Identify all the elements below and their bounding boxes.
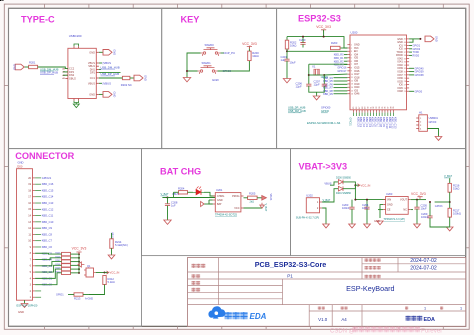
wire branch to R204 (168, 192, 174, 197)
svg-text:R205: R205 (249, 191, 256, 195)
svg-text:U200: U200 (351, 31, 358, 35)
svg-text:10kΩ: 10kΩ (290, 43, 296, 47)
svg-text:X1: X1 (312, 65, 316, 69)
svg-text:GPIO21: GPIO21 (349, 118, 351, 127)
wire U200 left pin KBD_R3 (344, 64, 347, 66)
svg-text:CONNECTOR: CONNECTOR (15, 151, 74, 161)
wire R213 left (68, 294, 74, 296)
net label VBUS (lower) (103, 82, 112, 86)
net port V_BAT (BAT CHG) (161, 192, 169, 196)
svg-text:36: 36 (404, 55, 406, 57)
title label 原理图 (192, 264, 206, 268)
svg-text:R202 NC: R202 NC (121, 83, 132, 87)
ground (KEY) (183, 78, 190, 82)
wire J200 pin 21 to R205 (35, 252, 61, 255)
port arrow (boot) (78, 262, 84, 267)
svg-text:R201: R201 (29, 61, 36, 65)
svg-text:SW200: SW200 (205, 43, 215, 47)
svg-text:10uF: 10uF (362, 206, 368, 210)
title label 尺寸 (341, 307, 348, 310)
wire U200 right pin GPIO0 (409, 90, 414, 92)
wire VCC to R200 (248, 46, 250, 51)
svg-text:NC: NC (403, 209, 407, 212)
wire U200 right pin GPIO1 (409, 45, 412, 47)
wire C200 down (302, 44, 304, 47)
svg-text:KBD_C10: KBD_C10 (42, 220, 54, 224)
junction R208 (78, 264, 80, 266)
net port GPIO0 (321, 109, 329, 113)
ground (EN RC) (283, 79, 290, 83)
net label KBD_R8 (323, 90, 333, 93)
svg-text:30: 30 (404, 75, 406, 77)
svg-text:USB_DM_HUB: USB_DM_HUB (288, 109, 306, 113)
section box CONNECTOR (9, 149, 142, 327)
svg-text:VCC_3V3: VCC_3V3 (316, 25, 331, 29)
net label GPIO1 (CONNECTOR) (56, 294, 64, 297)
svg-text:2024-07-02: 2024-07-02 (410, 258, 437, 264)
U200 right pin names (396, 38, 403, 93)
net label KBD_R9 (323, 93, 333, 96)
svg-text:KBD_C9: KBD_C9 (42, 226, 53, 230)
svg-text:51kΩ: 51kΩ (453, 187, 459, 191)
wire crystal branch to IC IO7 (309, 63, 348, 65)
wire C205 to ground (416, 209, 418, 224)
switch SW201 (198, 66, 218, 74)
wire J200 pin 20 to R206 (35, 258, 61, 260)
wire U200 right pin GPIO39 (409, 71, 414, 73)
header H1 (416, 110, 427, 131)
svg-text:GND: GND (89, 92, 95, 96)
switch SW200 (201, 48, 221, 56)
svg-text:40: 40 (404, 42, 406, 44)
svg-text:J200: J200 (17, 164, 23, 168)
net label VBUS (BAT CHG) (172, 192, 179, 196)
svg-text:5.1kΩ: 5.1kΩ (108, 280, 115, 284)
wire GND pin to port (99, 51, 103, 53)
wire J200 pin 17 to R209 (35, 269, 61, 278)
svg-text:GND: GND (112, 49, 116, 55)
svg-text:EDA: EDA (250, 312, 267, 321)
ground (H1) (435, 137, 442, 141)
resistor R203 (331, 41, 341, 50)
svg-text:4: 4 (351, 54, 352, 56)
net label VBUS (VBAT section) (324, 181, 331, 185)
wire U200 left pin KBD_R6 (334, 83, 348, 85)
wire U200 GND pin to port (409, 38, 420, 40)
wire U200 right pin TXD0 (409, 51, 412, 53)
svg-text:15: 15 (351, 90, 353, 92)
svg-text:2024-07-02: 2024-07-02 (410, 265, 437, 271)
USBC200 pin stubs right (96, 52, 99, 94)
wire crystal right leg down (323, 75, 325, 84)
wire U200 bottom first pin (353, 113, 355, 116)
section box VBAT->3V3 (291, 149, 466, 256)
svg-text:25: 25 (404, 91, 406, 93)
svg-text:Forever: Forever (421, 328, 442, 335)
ground (USB shield) (73, 104, 79, 108)
svg-text:VCC_3V3: VCC_3V3 (411, 192, 426, 196)
title label 创建日期 (365, 266, 381, 270)
net label KBD_R7 (323, 87, 333, 90)
wire R207 to VCC rail (71, 261, 80, 263)
net label USB_DP_HUB (left) (40, 71, 58, 75)
title block outer (188, 258, 466, 327)
resistor (62, 267, 71, 270)
wire VBUS to diode D200 (330, 182, 338, 185)
wires U200 bottom pins (356, 113, 393, 116)
wire VCC to V_BAT port (244, 207, 263, 209)
svg-text:CC1: CC1 (90, 76, 96, 80)
diode D201 (336, 186, 352, 194)
wire J200 pin 18 to R208 (35, 265, 61, 272)
net label GPIO0 (H1) (429, 121, 437, 124)
net label KBD_R3 (334, 64, 344, 67)
USBC200 right pin names (88, 50, 96, 96)
title label 物料编码 (365, 275, 381, 279)
net port USB_DP_HUB (ESP32) (288, 106, 306, 110)
svg-text:VBUS: VBUS (88, 81, 95, 85)
wire DP1 to R202 (99, 72, 121, 74)
wire U200 right pin GPIO2 (409, 48, 412, 50)
svg-text:H1: H1 (419, 110, 423, 114)
wire crystal node (309, 74, 325, 76)
svg-text:1uF: 1uF (281, 58, 286, 62)
svg-text:SW201: SW201 (202, 61, 212, 65)
svg-text:PCB_ESP32-S3-Core: PCB_ESP32-S3-Core (255, 260, 327, 269)
net label KBD_R5 (323, 80, 333, 83)
svg-text:USB_DP_HUB: USB_DP_HUB (288, 106, 306, 110)
net port USB_DM_HUB (ESP32) (288, 109, 306, 113)
svg-text:GPIO1: GPIO1 (56, 294, 64, 297)
svg-text:C200: C200 (299, 38, 306, 42)
J200 pin stubs (33, 178, 36, 297)
port GND (U200) (425, 36, 438, 42)
title label 控制 (192, 281, 201, 285)
wire crystal right to IC IO17 (324, 73, 347, 76)
junction VCC rail (323, 36, 325, 38)
junction R209 (78, 268, 80, 270)
wire R203 to 3V3 pin (336, 47, 347, 49)
svg-text:[VBUS: [VBUS (103, 82, 112, 86)
wire crystal left leg (308, 64, 310, 84)
net label KBD_R0 (334, 54, 344, 57)
wire R217 to ground (449, 217, 451, 227)
svg-text:D200 SS8050: D200 SS8050 (336, 177, 352, 180)
ground (battery) (323, 224, 330, 228)
power flag VCC_3V3 (KEY) (242, 42, 257, 49)
wire NC stub (411, 209, 413, 211)
wire VBUS pin (99, 62, 102, 64)
svg-text:8: 8 (351, 67, 352, 69)
power flag VCC_3V3 (CONNECTOR) (72, 247, 87, 255)
wire rail to C200 (302, 37, 304, 43)
svg-text:PROG: PROG (232, 195, 239, 198)
wire battery pin2 to ground (322, 208, 326, 224)
svg-text:KBD_C12: KBD_C12 (42, 207, 54, 211)
wire to C205 (416, 200, 418, 208)
svg-text:TPF62371-3.3 (2P): TPF62371-3.3 (2P) (384, 218, 406, 221)
svg-text:EDA: EDA (424, 317, 435, 323)
ground (C205) (414, 224, 421, 228)
wire U200 left pin KBD_R5 (334, 80, 348, 82)
net label GPIO2 (413, 48, 421, 51)
svg-text:V_BAT: V_BAT (444, 174, 452, 178)
title label 页 1 共 1 (405, 307, 462, 311)
svg-text:28: 28 (404, 81, 406, 83)
svg-text:GND: GND (212, 78, 220, 82)
title label 审核 (192, 288, 201, 292)
port GND (CC1) (134, 75, 147, 81)
wire GND pin bottom to port (99, 93, 103, 95)
wires J200 pins (35, 178, 41, 297)
wire R202 to C201 (286, 49, 288, 59)
wire V_BAT to R216 (449, 178, 451, 183)
svg-text:VCC_3V3: VCC_3V3 (242, 42, 257, 46)
resistor R201 (29, 65, 38, 68)
wire U200 right pin RXD0 (409, 54, 412, 56)
svg-text:VIN: VIN (387, 199, 391, 202)
net label USB001 (429, 117, 439, 120)
resistor R202 (285, 40, 297, 49)
wire R2010 to VCC rail (71, 272, 80, 274)
svg-text:USBC200: USBC200 (69, 34, 82, 38)
svg-text:29: 29 (404, 78, 406, 80)
svg-text:GND: GND (387, 204, 393, 207)
svg-text:KBD_C16: KBD_C16 (42, 182, 54, 186)
resistor R216 (448, 183, 460, 192)
wire R201 to CC2 (38, 67, 68, 69)
svg-text:GPIO38: GPIO38 (415, 74, 425, 77)
svg-text:GND: GND (18, 161, 24, 165)
svg-text:2kΩ: 2kΩ (250, 200, 255, 203)
wire R206 to VCC rail (71, 257, 80, 259)
svg-text:10uF: 10uF (290, 61, 296, 65)
junction divider mid (449, 201, 451, 203)
capacitor C201 (281, 55, 290, 62)
svg-text:3: 3 (351, 51, 352, 53)
wire R204 to LED (188, 191, 194, 193)
svg-text:35: 35 (404, 58, 406, 60)
LED D202 (charge indicator) (193, 186, 204, 195)
module U200 ESP32-S3 (350, 31, 407, 110)
svg-text:SBU2: SBU2 (69, 76, 76, 80)
crystal X1 (312, 65, 319, 76)
svg-text:USB_DP_HUB: USB_DP_HUB (101, 72, 120, 76)
svg-text:ESP32-S3: ESP32-S3 (298, 14, 341, 24)
svg-text:P1: P1 (287, 274, 293, 279)
wire EN node to EN pin (287, 50, 347, 52)
resistor R213 (74, 293, 83, 301)
watermark CSDN (330, 329, 355, 335)
svg-text:D201 SS8050: D201 SS8050 (336, 192, 352, 195)
wire R202 to port (130, 77, 134, 79)
capacitor C206 (296, 82, 312, 89)
junction C204 node (366, 199, 368, 201)
wire junction to ground (KEY) (186, 71, 188, 78)
svg-text:GPIO0: GPIO0 (321, 109, 329, 113)
frame row ticks right (466, 85, 470, 247)
frame column ticks top (45, 4, 444, 8)
svg-text:TP4054-42-SOT25: TP4054-42-SOT25 (215, 213, 237, 217)
frame row ticks left (4, 85, 8, 247)
net label VBUS (upper) (103, 61, 112, 65)
svg-text:GPIO0: GPIO0 (429, 121, 437, 124)
svg-text:KEY: KEY (181, 15, 200, 25)
wire U200 GND2 join (409, 39, 413, 42)
svg-text:VCC_IN: VCC_IN (361, 183, 371, 187)
net label GPIO3 (divider) (435, 205, 443, 208)
net label GPIO00 (321, 106, 331, 110)
net port USB_DM_HUB (right) (101, 65, 120, 69)
svg-text:U203: U203 (386, 192, 393, 196)
wire U200 left pin KBD_R2 (344, 60, 347, 62)
svg-text:VCC_3V3: VCC_3V3 (72, 247, 87, 251)
junction R206 (78, 257, 80, 259)
svg-text:KBD_C13: KBD_C13 (42, 201, 54, 205)
net port USB_DM_HUB (left) (40, 67, 59, 71)
junction R207 (78, 261, 80, 263)
USBC200 shield pins bottom (74, 99, 79, 101)
svg-text:27: 27 (404, 84, 406, 86)
svg-text:100nF: 100nF (421, 215, 429, 219)
wire DP2 stub (63, 71, 68, 73)
svg-text:DP1: DP1 (90, 71, 96, 75)
resistor R202 (122, 76, 129, 79)
U200 bottom pin numbers (353, 106, 395, 109)
ground (R214) (108, 255, 115, 259)
net label KBD_R4 (323, 77, 333, 80)
svg-text:KBD_R9: KBD_R9 (323, 93, 333, 96)
wire V_BAT to charger (162, 197, 215, 199)
wire LDO GND down (380, 205, 383, 218)
wire VBUS to R214 (111, 233, 113, 239)
ground (C203) (349, 224, 356, 228)
svg-text:VBUS: VBUS (324, 181, 331, 185)
junction rail C200 (302, 36, 304, 38)
USBC200 pin numbers left column (62, 67, 65, 80)
power flag VCC_3V3 (VBAT) (411, 192, 426, 199)
wire U200 right pin GPIO40 (409, 67, 414, 69)
net label KBD_R1 (334, 57, 344, 60)
net label GPIO40 (415, 67, 425, 70)
wire U200 left pin KBD_R7 (334, 87, 348, 89)
wire C204 to ground (366, 209, 368, 224)
svg-text:41: 41 (404, 39, 406, 41)
net label GPIO39 (415, 71, 425, 74)
wire to VCC_IN label (355, 184, 359, 186)
svg-text:V_BAT: V_BAT (264, 204, 267, 212)
logo 嘉立创EDA wordmark (225, 312, 267, 321)
wire shield top loop (74, 44, 79, 46)
wire J200 to ground (24, 300, 26, 303)
svg-text:31: 31 (404, 71, 406, 73)
U200 left pin names (354, 44, 360, 96)
wire R214 to ground (111, 248, 113, 255)
svg-text:34: 34 (404, 62, 406, 64)
wire R205 to VBUS port (257, 197, 261, 199)
svg-text:39: 39 (404, 45, 406, 47)
wire U200 left pin KBD_R0 (344, 54, 347, 56)
svg-text:1: 1 (351, 45, 352, 47)
resistor (62, 271, 71, 274)
wire C209 to ground rail (430, 218, 450, 227)
net label VBUS (CONNECTOR) (111, 232, 114, 239)
svg-text:ChiP_PU: ChiP_PU (224, 51, 236, 55)
svg-text:KBD_C14: KBD_C14 (42, 195, 54, 199)
svg-text:KBD_C7: KBD_C7 (42, 239, 53, 243)
svg-text:12: 12 (351, 80, 353, 82)
wire divider mid to C209 (429, 202, 431, 216)
svg-text:ESP-KeyBoard: ESP-KeyBoard (346, 284, 394, 293)
junction crystal right (323, 74, 325, 76)
wire divider to GPIO label (435, 201, 450, 203)
wire SW201 to R200 (218, 61, 250, 71)
svg-text:10uF: 10uF (421, 207, 427, 211)
svg-text:U201: U201 (216, 188, 223, 192)
wire R208 to VCC rail (71, 264, 80, 266)
svg-text:10kΩ: 10kΩ (252, 54, 258, 58)
svg-text:6: 6 (351, 61, 352, 63)
section box KEY (162, 8, 277, 148)
title label 版本 (318, 307, 325, 310)
resistor R204 (178, 186, 188, 194)
wire to C204 (366, 200, 368, 208)
net port V_BAT (divider) (444, 174, 452, 178)
svg-text:7: 7 (351, 64, 352, 66)
ground (divider) (446, 227, 453, 231)
svg-text:KBD_C15: KBD_C15 (42, 188, 54, 192)
wire U200 left pin KBD_R8 (334, 90, 348, 92)
svg-text:RXD0: RXD0 (413, 55, 420, 58)
svg-text:12pF: 12pF (296, 85, 302, 89)
svg-text:2: 2 (351, 48, 352, 50)
wire U200 left pin KBD_R9 (334, 93, 348, 95)
USBC200 pin stubs left (65, 69, 68, 79)
power flag VCC_IN (VBAT section) (358, 183, 371, 187)
U200 bottom pin stubs (354, 110, 394, 113)
wire LED to CHRG pin (204, 192, 215, 196)
section box ESP32-S3 (277, 8, 466, 148)
wire U200 left pin KBD_R1 (344, 57, 347, 59)
junction crystal left (308, 74, 310, 76)
wire Q1 to VCC_IN node (96, 272, 105, 274)
wire R213 right (83, 294, 89, 296)
junction VCC_IN (354, 184, 356, 186)
USB-C connector USBC200 (68, 34, 96, 99)
wire C208 to ground (167, 206, 169, 220)
junction VCC_IN node (104, 272, 106, 274)
connector J200 (17, 164, 33, 300)
regulator U203 (383, 192, 411, 214)
net label ChiP_PU (224, 51, 236, 55)
port GND (left) (13, 64, 25, 70)
svg-text:VCC: VCC (234, 207, 239, 210)
svg-text:16: 16 (351, 94, 353, 96)
svg-text:KBD_C8: KBD_C8 (42, 232, 53, 236)
section box BAT CHG (142, 149, 291, 256)
wire VCC_3V3 rail (resistor network) (78, 252, 80, 254)
wire PROG to R205 (244, 197, 248, 199)
junction EN node (286, 50, 288, 52)
svg-text:26: 26 (404, 88, 406, 90)
svg-text:ESP-32F-20PH20: ESP-32F-20PH20 (17, 304, 38, 308)
J200 pin numbers (28, 177, 31, 299)
wire crystal caps to ground bus (309, 86, 325, 92)
svg-text:CSDN @: CSDN @ (330, 329, 355, 335)
resistor R205 (248, 191, 258, 199)
port VBUS (right arrow) (262, 194, 272, 201)
svg-text:VBUS: VBUS (111, 232, 114, 239)
